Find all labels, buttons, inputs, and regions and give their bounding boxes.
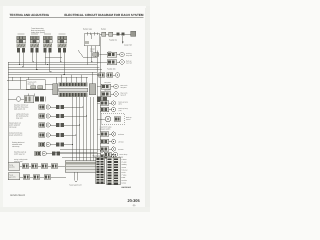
connector CN5 — [39, 142, 51, 147]
label lamp rr4 — [118, 155, 124, 158]
wire strip feeders — [56, 72, 92, 84]
label battery — [101, 28, 106, 31]
wire bus 1 — [8, 61, 100, 63]
label stack title — [93, 155, 103, 158]
connector CN29 room lamp — [104, 152, 118, 156]
connector CN12 — [101, 92, 119, 97]
wire ribbon vertical 7 — [93, 97, 95, 161]
connector CN24 — [20, 175, 30, 180]
label travel alarm — [69, 184, 82, 187]
wire row3 to ribbon — [50, 124, 56, 126]
node box A — [8, 163, 20, 171]
wire bus 2 — [8, 64, 97, 66]
legend text block — [122, 158, 128, 184]
wire left trunk — [7, 62, 9, 150]
connector CN4 — [39, 133, 51, 138]
connector CN20 — [20, 164, 29, 169]
connector CN2b pins — [56, 114, 64, 118]
node box B — [8, 173, 20, 180]
travel alarm unit U2 body — [65, 161, 98, 173]
label back-up lamp RH — [119, 100, 128, 105]
svg-text:Travel alarm unit: Travel alarm unit — [69, 184, 82, 187]
wire ribbon vertical 5 — [86, 97, 88, 161]
wire ribbon vertical 8 — [96, 51, 98, 161]
wire relay R2 down — [32, 52, 34, 62]
label fusible link — [109, 39, 117, 42]
wire relay R1 down — [18, 52, 20, 64]
label working lamp — [126, 52, 133, 57]
controller unit U1 — [53, 83, 96, 97]
wire row6 to ribbon — [46, 153, 52, 155]
connector CN11 — [97, 84, 118, 89]
connector CN3b pins — [56, 123, 64, 127]
connector CN23 — [48, 164, 66, 169]
relay R4 — [58, 34, 67, 53]
label starter motor — [124, 44, 132, 47]
wire relay R4 down — [59, 52, 61, 62]
battery relay BR1 — [84, 32, 100, 46]
relay R5 small — [24, 96, 34, 103]
label parking brake row5 — [12, 141, 25, 148]
wire bus 5 — [8, 71, 97, 73]
wire ribbon vertical 3 — [79, 97, 81, 161]
wire row4 to ribbon — [50, 134, 56, 136]
connector CN22 — [38, 164, 48, 169]
label row4 — [104, 81, 111, 84]
relay R1 — [17, 34, 26, 53]
battery B1 — [100, 32, 134, 36]
connector pins dark pair — [35, 96, 45, 101]
connector CN14 back-up lamp RH — [97, 101, 116, 106]
label back-up lamp LH — [119, 107, 128, 112]
label row1 — [108, 50, 112, 53]
label rear lamp RH — [121, 84, 128, 89]
svg-text:(5): (5) — [133, 204, 136, 207]
starter relay block — [93, 53, 99, 57]
connector CN6b pins — [52, 151, 60, 155]
label machine drive switch — [14, 104, 29, 111]
label swing holding text — [14, 158, 28, 163]
wire under diode box — [8, 88, 53, 90]
label lamp switch row2 — [16, 113, 29, 120]
svg-text:Fusible link: Fusible link — [107, 67, 116, 70]
wire ribbon vertical 1 — [72, 97, 74, 161]
label pushup row6 — [14, 151, 26, 156]
wire ribbon vertical 9 — [100, 37, 102, 161]
label horn — [126, 60, 132, 65]
svg-text:ELECTRICAL CIRCUIT DIAGRAM FOR: ELECTRICAL CIRCUIT DIAGRAM FOR EACH SYST… — [64, 13, 144, 17]
wire trunk to diode box — [8, 80, 26, 82]
wire relay R3 down — [45, 52, 47, 64]
wire ribbon vertical 4 — [82, 97, 84, 161]
connector CN16 — [100, 139, 116, 144]
connector CN14b back-up lamp LH — [100, 107, 116, 112]
label starter relay text — [90, 48, 95, 53]
label back-up buzzer — [126, 116, 132, 121]
wire relay link — [45, 57, 62, 59]
svg-text:BKP00106: BKP00106 — [122, 186, 131, 189]
wire row2 to ribbon — [50, 115, 56, 117]
label battery relay — [83, 28, 92, 31]
connector CN6 — [35, 151, 47, 156]
connector CN26 — [44, 175, 66, 180]
label lamp rr1 — [118, 133, 124, 136]
header rule — [10, 17, 144, 19]
connector CN1 — [39, 105, 51, 110]
connector CN15 — [97, 132, 116, 137]
connector CN30 stack A — [96, 157, 105, 184]
relay R3 — [43, 34, 52, 53]
label row5 — [104, 89, 111, 92]
wire bus 7 — [8, 76, 88, 78]
label fusible link 2 — [107, 67, 116, 70]
wire bus 6 — [8, 74, 100, 76]
wire stub pair — [75, 172, 78, 182]
back-up buzzer BZ1 — [97, 114, 125, 125]
connector CN17 — [97, 147, 116, 152]
label room lamp — [120, 153, 128, 156]
label swing row4 — [9, 132, 23, 137]
wire feed lines bottom — [55, 151, 97, 153]
svg-text:20-305: 20-305 — [128, 198, 141, 203]
label lamp rr3 — [118, 148, 124, 151]
connector CN5b pins — [56, 142, 64, 146]
fuse box cluster — [97, 97, 107, 102]
diode box D1 — [26, 80, 45, 90]
wire starter diag — [78, 50, 83, 57]
wire ribbon vertical 2 — [75, 97, 77, 161]
svg-text:TESTING AND ADJUSTING: TESTING AND ADJUSTING — [10, 13, 50, 17]
connector CN1b pins — [56, 105, 64, 109]
wire starter drop — [122, 36, 124, 44]
connector CN18 — [100, 154, 116, 159]
wire row1 to ribbon — [50, 106, 56, 108]
connector CN10b — [97, 60, 124, 65]
junction dots on bus — [19, 61, 93, 75]
label speed select row3 — [9, 122, 21, 129]
label travel ppc note — [100, 126, 112, 131]
page background — [0, 0, 150, 212]
wire diode to strip — [45, 84, 53, 86]
connector CN25 — [30, 175, 44, 180]
svg-text:SEN05798-00: SEN05798-00 — [10, 194, 26, 197]
label lamp rr2 — [118, 140, 124, 143]
resistor block — [8, 97, 24, 101]
wire to working lamp row — [100, 54, 108, 56]
connector CN10 working lamp — [107, 52, 124, 57]
wire bus 4 — [8, 69, 102, 71]
middle drop wires to unit — [11, 77, 13, 81]
balloon 6 — [101, 150, 104, 153]
connector CN4b pins — [56, 133, 64, 137]
wire bus 3 — [8, 66, 100, 68]
wire battery relay down — [91, 46, 93, 63]
label rear lamp LH — [121, 92, 128, 97]
wire row5 to ribbon — [50, 144, 56, 146]
wire r5 — [27, 94, 29, 96]
fuse F1 — [97, 73, 120, 77]
wire ribbon vertical 6 — [89, 97, 91, 161]
connector CN3 — [39, 123, 51, 128]
connector CN31 stack B — [107, 157, 121, 185]
label travel alarm relay — [31, 27, 45, 34]
wire trunk to box A — [7, 150, 9, 163]
connector CN21 — [29, 164, 38, 169]
relay R2 — [30, 34, 39, 53]
connector CN2 — [39, 114, 51, 119]
fusible link F0 — [131, 31, 136, 36]
label legend code — [122, 186, 131, 189]
